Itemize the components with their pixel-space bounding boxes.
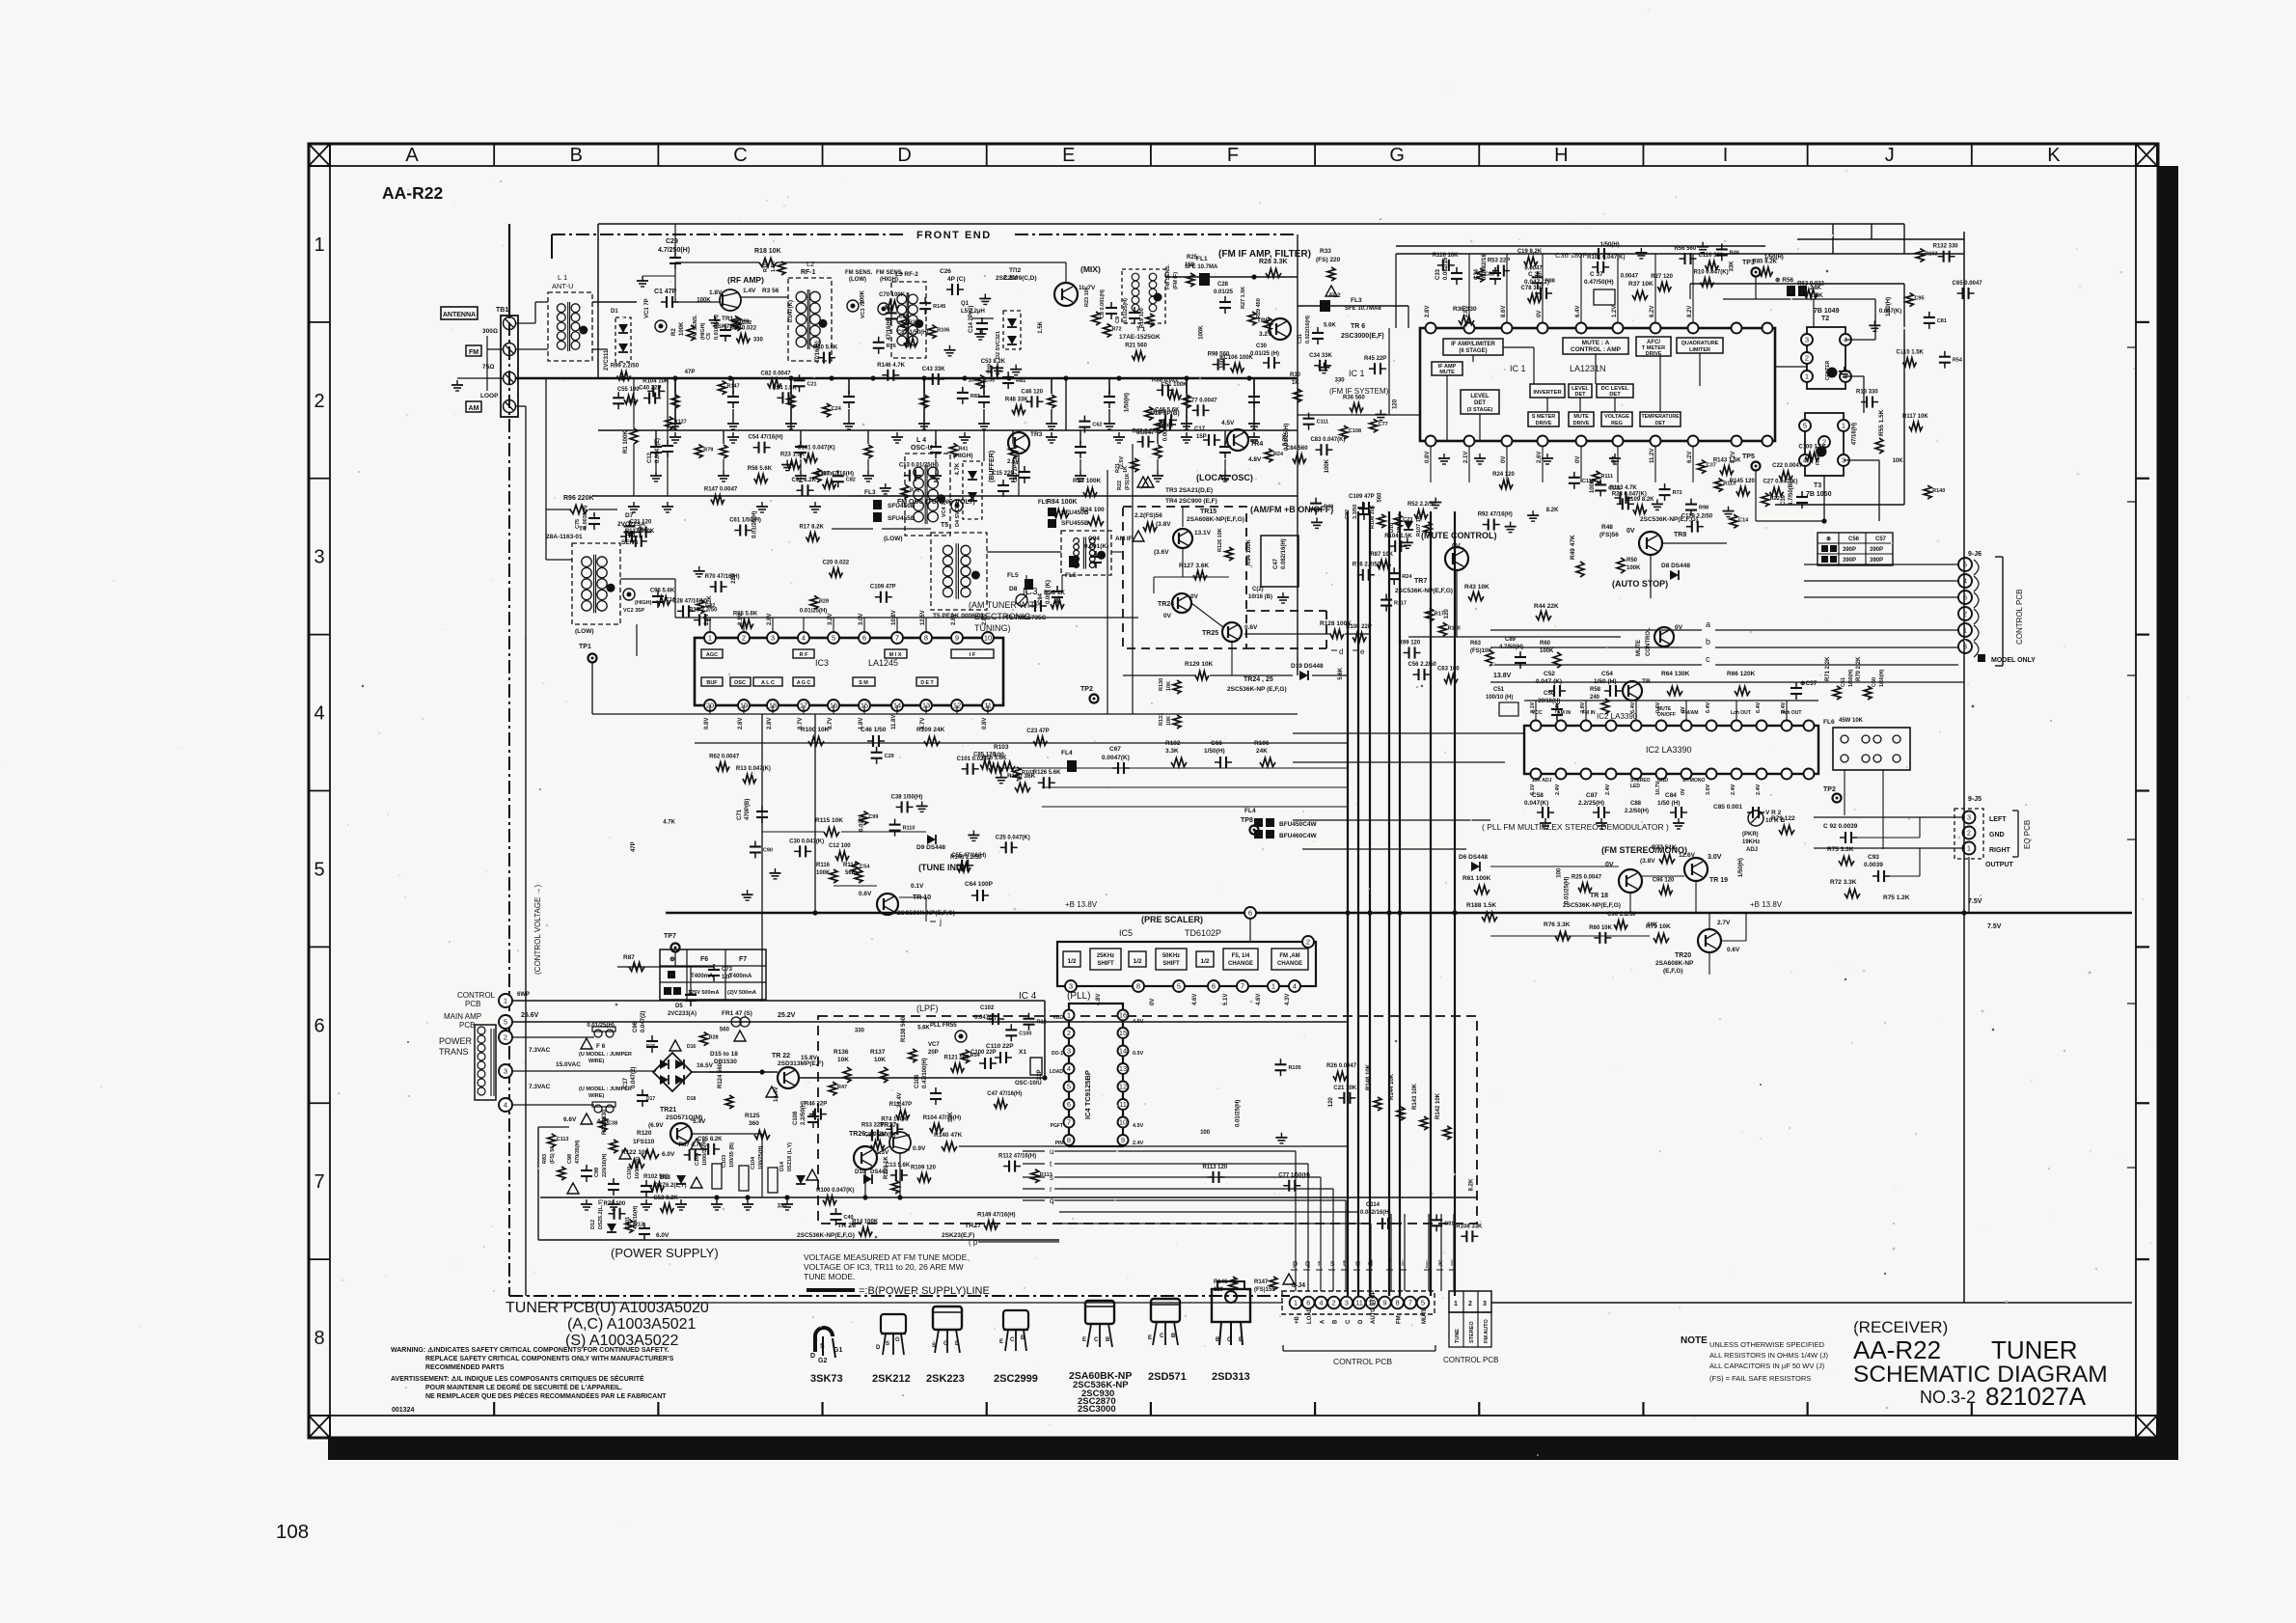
svg-text:R13 47P: R13 47P: [889, 1102, 912, 1108]
svg-text:3: 3: [1483, 1301, 1487, 1307]
svg-text:25KHz: 25KHz: [1097, 953, 1114, 959]
svg-text:C64 100P: C64 100P: [965, 881, 994, 888]
svg-text:LED: LED: [1630, 784, 1640, 789]
svg-text:C51 100K: C51 100K: [1161, 382, 1188, 388]
TR7 transistor: [1445, 547, 1468, 570]
IC4 outline: [1069, 1004, 1123, 1146]
svg-text:BFU460C4W: BFU460C4W: [1279, 833, 1318, 839]
svg-text:FL4: FL4: [1061, 750, 1073, 756]
svg-text:d: d: [1368, 1258, 1373, 1268]
svg-text:100: 100: [1200, 1130, 1211, 1136]
svg-text:C8 0.001(H): C8 0.001(H): [1100, 289, 1106, 318]
IC3 LA1245 outline: [695, 638, 1003, 705]
svg-text:0.047 (K): 0.047 (K): [1536, 678, 1562, 685]
svg-text:25.6V: 25.6V: [521, 1012, 539, 1019]
svg-text:R92 47/16(H): R92 47/16(H): [1478, 512, 1513, 518]
svg-text:B: B: [570, 145, 583, 166]
svg-text:C29: C29: [666, 238, 678, 245]
svg-text:C99: C99: [868, 814, 878, 820]
svg-text:NE REMPLACER QUE DES PIÈCES RE: NE REMPLACER QUE DES PIÈCES RECOMMANDÉES…: [425, 1391, 667, 1400]
svg-text:24K: 24K: [1256, 748, 1268, 755]
svg-text:6.0V: 6.0V: [662, 1151, 675, 1158]
svg-text:F 6: F 6: [596, 1043, 606, 1050]
svg-text:TR20: TR20: [1675, 952, 1691, 959]
svg-text:50KHz: 50KHz: [1162, 953, 1180, 959]
svg-text:2: 2: [1306, 938, 1310, 947]
svg-text:47/16(H): 47/16(H): [1851, 423, 1857, 445]
svg-text:7.3VAC: 7.3VAC: [529, 1047, 551, 1054]
svg-text:45W 10K: 45W 10K: [1839, 718, 1864, 724]
svg-text:C96 5.6K: C96 5.6K: [650, 589, 675, 594]
filter FL2: [1320, 300, 1330, 312]
svg-text:2: 2: [1967, 829, 1971, 838]
svg-text:C108: C108: [1349, 428, 1361, 434]
svg-text:SFU455B: SFU455B: [1061, 520, 1089, 527]
power left box: [537, 1127, 539, 1240]
svg-text:AM IF: AM IF: [1115, 536, 1133, 542]
svg-text:0.047(2): 0.047(2): [631, 1067, 637, 1088]
svg-text:2.4V: 2.4V: [1555, 784, 1561, 795]
svg-text:2: 2: [314, 391, 324, 412]
svg-text:a: a: [1706, 619, 1710, 629]
svg-text:R27 120: R27 120: [1651, 274, 1673, 280]
svg-text:2.4V: 2.4V: [1133, 1141, 1144, 1146]
wire T4 col: [545, 378, 547, 509]
svg-text:ELECTRONIC: ELECTRONIC: [974, 612, 1031, 621]
svg-text:C31: C31: [1298, 334, 1303, 344]
svg-text:(FM IF): (FM IF): [1173, 272, 1179, 289]
scan speckle noise: [1846, 967, 1848, 969]
wire row y=836: [1042, 806, 1348, 808]
svg-text:0.9V: 0.9V: [913, 1145, 926, 1152]
svg-text:TUNE: TUNE: [1455, 1329, 1461, 1343]
svg-text:8: 8: [1396, 1299, 1400, 1307]
D6 DS448: [1471, 862, 1480, 871]
svg-text:LOAD: LOAD: [1307, 1307, 1313, 1324]
svg-text:R72: R72: [1111, 326, 1121, 332]
svg-text:R138 560: R138 560: [901, 1016, 907, 1042]
svg-text:C93: C93: [1868, 854, 1879, 861]
svg-text:R103: R103: [994, 744, 1009, 751]
svg-text:(CONTROL VOLTAGE →): (CONTROL VOLTAGE →): [533, 884, 542, 975]
svg-text:R70 2.2K: R70 2.2K: [1856, 656, 1862, 681]
schematic top boundary: [598, 223, 1904, 225]
svg-text:C: C: [1160, 1334, 1164, 1339]
svg-text:FL3: FL3: [864, 489, 876, 496]
svg-text:C25 0.047(K): C25 0.047(K): [996, 835, 1030, 840]
svg-text:( PLL FM MULTIPLEX STERE: ( PLL FM MULTIPLEX STEREO DEMODULATOR ): [1482, 822, 1669, 832]
svg-text:C50: C50: [1544, 691, 1555, 697]
svg-text:(6.9V: (6.9V: [648, 1122, 664, 1129]
svg-text:0V: 0V: [1681, 706, 1686, 713]
filter FL5 square: [1069, 556, 1079, 567]
svg-text:G: G: [895, 1337, 900, 1343]
IC1 box TEMPERATURE DET: [1640, 412, 1681, 426]
svg-text:120: 120: [1328, 1097, 1334, 1108]
svg-text:R86 5.6K: R86 5.6K: [733, 612, 758, 618]
svg-text:L2: L2: [806, 260, 814, 268]
svg-text:C29: C29: [885, 754, 894, 759]
terminal strip TB1: [501, 316, 518, 417]
svg-text:(FS) = FAIL SAFE RESISTORS: (FS) = FAIL SAFE RESISTORS: [1709, 1374, 1811, 1383]
svg-text:(PLL): (PLL): [1067, 991, 1090, 1002]
svg-text:L 1: L 1: [558, 273, 567, 282]
svg-text:FM SENS.: FM SENS.: [693, 315, 698, 340]
svg-text:33K: 33K: [1729, 261, 1735, 272]
wire IC5 to bus: [1249, 919, 1251, 942]
svg-text:7B 1050: 7B 1050: [1806, 491, 1832, 498]
svg-text:0.01/25 (H): 0.01/25 (H): [1250, 351, 1279, 357]
svg-text:C111: C111: [1317, 420, 1329, 426]
svg-text:R37: R37: [909, 320, 918, 326]
svg-text:4: 4: [802, 634, 806, 643]
svg-text:2.4V: 2.4V: [1605, 784, 1611, 795]
svg-text:125V 500mA: 125V 500mA: [688, 990, 719, 996]
svg-text:0.01/25(H): 0.01/25(H): [587, 1023, 614, 1029]
svg-text:1: 1: [1067, 1011, 1071, 1020]
svg-text:C51: C51: [1493, 687, 1505, 693]
svg-text:C73: C73: [722, 967, 733, 973]
svg-text:R143 1.5K: R143 1.5K: [1713, 457, 1741, 463]
svg-text:(LOW): (LOW): [884, 536, 903, 542]
svg-text:0.0039: 0.0039: [1864, 862, 1883, 868]
svg-text:C110 22P: C110 22P: [986, 1043, 1014, 1050]
svg-text:ADJ: ADJ: [1746, 847, 1758, 853]
svg-text:R147: R147: [727, 384, 740, 390]
svg-text:C100 1.5K: C100 1.5K: [1798, 444, 1826, 450]
IC5 box F5 CHANGE: [1223, 949, 1258, 970]
svg-text:C104: C104: [751, 1156, 756, 1169]
svg-text:R143 10K: R143 10K: [1412, 1083, 1418, 1110]
svg-text:C17: C17: [623, 1077, 629, 1088]
T4 trimmer: [623, 589, 635, 600]
svg-text:C21 120: C21 120: [630, 519, 652, 525]
svg-text:3.6V: 3.6V: [1706, 784, 1711, 795]
svg-text:D: D: [876, 1345, 881, 1351]
svg-text:15.0VAC: 15.0VAC: [556, 1061, 581, 1068]
svg-text:6: 6: [862, 634, 866, 643]
svg-text:0.001(K): 0.001(K): [1084, 543, 1108, 550]
svg-text:3: 3: [1069, 982, 1073, 991]
transformer T6 AM IF: [1061, 531, 1111, 575]
svg-text:D: D: [897, 145, 911, 166]
AM/FM +B ON/OFF dashed box: [1123, 507, 1246, 648]
svg-text:OSC-U: OSC-U: [911, 445, 933, 452]
svg-text:C83: C83: [1485, 271, 1494, 277]
svg-text:R60 10K: R60 10K: [1589, 925, 1612, 931]
svg-text:R72: R72: [1673, 490, 1682, 496]
svg-text:RF-1: RF-1: [801, 269, 816, 276]
svg-text:GND: GND: [1989, 832, 2005, 839]
svg-text:R26 0.0047: R26 0.0047: [1326, 1063, 1357, 1069]
svg-text:TR 22: TR 22: [772, 1053, 790, 1059]
svg-text:R87 10K: R87 10K: [1370, 552, 1393, 558]
discriminator T3 7B 1050: [1805, 413, 1844, 476]
svg-text:R63 0.022: R63 0.022: [1797, 281, 1824, 287]
antenna label box: [441, 307, 478, 319]
svg-text:0.01/25(H): 0.01/25(H): [1565, 877, 1571, 904]
svg-text:1/50(H): 1/50(H): [1738, 858, 1744, 877]
transformer L2 RF-1: [788, 278, 832, 361]
diode D1 2VC311 box: [615, 317, 631, 362]
border header line: [309, 165, 2158, 167]
svg-text:(FS)10K: (FS)10K: [1470, 648, 1492, 654]
svg-text:(LOCAL OSC): (LOCAL OSC): [1196, 473, 1253, 482]
svg-text:0.0047(Z): 0.0047(Z): [655, 438, 661, 463]
connector pins left: [499, 994, 512, 1007]
svg-text:R33: R33: [1320, 248, 1331, 255]
svg-text:AM: AM: [469, 405, 479, 412]
svg-text:7.5V: 7.5V: [1987, 923, 2002, 930]
svg-text:C87 1/50(H): C87 1/50(H): [897, 330, 929, 336]
svg-text:1/50(H): 1/50(H): [1764, 255, 1784, 261]
svg-text:V R 2: V R 2: [1765, 810, 1782, 816]
svg-text:3: 3: [1967, 813, 1971, 822]
svg-text:C: C: [1346, 1319, 1352, 1324]
svg-text:DET: DET: [1474, 400, 1486, 406]
svg-text:T400mA: T400mA: [691, 974, 714, 979]
svg-text:C77 0.0047: C77 0.0047: [1188, 398, 1218, 403]
svg-text:R98 560: R98 560: [1208, 352, 1230, 358]
svg-text:2.2/50(H): 2.2/50(H): [1625, 809, 1649, 814]
svg-text:7.5V: 7.5V: [1968, 898, 1982, 905]
svg-text:R50: R50: [1626, 558, 1638, 564]
IC1 box LEVEL DET: [1569, 384, 1592, 398]
svg-text:9: 9: [1382, 1299, 1386, 1307]
svg-text:R75 3.3K: R75 3.3K: [1827, 846, 1854, 853]
svg-text:R142 10K: R142 10K: [1435, 1092, 1441, 1119]
IC1 box MUTE DRIVE: [1569, 412, 1594, 426]
svg-text:8.2V: 8.2V: [1687, 306, 1693, 317]
transistor package 2SD571: [1151, 1299, 1180, 1322]
svg-text:2: 2: [1468, 1301, 1472, 1307]
svg-text:C52: C52: [1544, 671, 1555, 677]
svg-text:8.2K: 8.2K: [1469, 1178, 1475, 1191]
svg-text:390P: 390P: [1843, 547, 1856, 553]
grounds ic2 below: [1544, 818, 1546, 823]
svg-text:47P: 47P: [631, 841, 637, 852]
front end corner bracket: [551, 234, 553, 259]
svg-text:C30: C30: [1256, 344, 1268, 349]
fuse F6: [594, 1030, 602, 1037]
svg-text:R14 100K: R14 100K: [852, 1219, 879, 1224]
border frame outer: [309, 144, 2158, 1438]
svg-text:6: 6: [314, 1015, 324, 1036]
svg-text:S: S: [886, 1341, 889, 1347]
svg-text:6: 6: [1248, 909, 1252, 918]
svg-text:FL3: FL3: [1351, 297, 1362, 304]
svg-text:3: 3: [771, 634, 775, 643]
svg-text:(3.8V: (3.8V: [1640, 858, 1655, 865]
svg-text:NOTE: NOTE: [1681, 1335, 1708, 1346]
svg-text:R23 1.5K: R23 1.5K: [780, 453, 806, 458]
svg-text:6.2V: 6.2V: [1687, 452, 1693, 463]
svg-text:1/2: 1/2: [1133, 958, 1141, 965]
svg-text:D: D: [810, 1353, 815, 1360]
svg-text:R56 5.6K: R56 5.6K: [748, 466, 773, 472]
svg-text:SFE 10.7MA8: SFE 10.7MA8: [1345, 306, 1381, 312]
FM label box: [466, 345, 481, 356]
svg-text:C40: C40: [844, 1215, 854, 1221]
wires above IC2: [1524, 700, 1818, 701]
svg-text:DRIVE: DRIVE: [1573, 421, 1590, 426]
svg-text:r: r: [1318, 1258, 1321, 1268]
svg-text:R126 10K: R126 10K: [1217, 528, 1223, 552]
svg-text:R104 10K: R104 10K: [642, 378, 670, 384]
main bus dots: [620, 375, 625, 380]
svg-text:ST/MONO: ST/MONO: [1682, 778, 1705, 784]
svg-text:R13 0.047(K): R13 0.047(K): [736, 766, 771, 772]
connector upper stubs: [1390, 1214, 1392, 1270]
hanging parts under main bus: [674, 378, 676, 394]
svg-text:R146 4.7K: R146 4.7K: [877, 363, 905, 369]
svg-text:(MUTE CONTROL): (MUTE CONTROL): [1421, 531, 1497, 540]
svg-text:TUNE MODE.: TUNE MODE.: [804, 1272, 855, 1281]
R50 100K: [1617, 558, 1625, 573]
transistor package 3SK73: [815, 1328, 833, 1352]
svg-text:POWER: POWER: [439, 1036, 473, 1046]
third wire y=514: [592, 495, 1298, 497]
IC2 top pins: [1531, 721, 1542, 731]
svg-text:4: 4: [1293, 982, 1297, 991]
svg-text:D: D: [955, 1341, 960, 1347]
svg-text:C102: C102: [980, 1005, 995, 1011]
svg-text:C66: C66: [1211, 740, 1222, 747]
routing band right top: [1797, 238, 1964, 240]
TP7 test point: [671, 944, 680, 952]
svg-text:MODEL ONLY: MODEL ONLY: [1991, 657, 2036, 664]
IC3 box ALC: [753, 677, 782, 686]
svg-text:6: 6: [1212, 982, 1216, 991]
IC3 box DET: [916, 677, 938, 686]
svg-text:C: C: [1010, 1337, 1015, 1343]
svg-text:C12: C12: [647, 452, 653, 463]
svg-text:R24: R24: [1402, 574, 1412, 580]
svg-text:IF AMP/LIMITER: IF AMP/LIMITER: [1451, 342, 1495, 347]
svg-text:K: K: [2047, 145, 2061, 166]
svg-text:T4: T4: [579, 526, 587, 533]
svg-text:100K: 100K: [861, 289, 866, 304]
svg-text:LEVEL: LEVEL: [1470, 394, 1490, 399]
svg-text:(AM TUNER WITH: (AM TUNER WITH: [969, 600, 1041, 610]
connector row wire right: [1491, 1302, 2132, 1304]
SFU filter pair: [1048, 508, 1056, 516]
svg-text:0V: 0V: [1605, 862, 1614, 868]
svg-text:D10: D10: [855, 1169, 866, 1175]
svg-text:C38: C38: [608, 1120, 617, 1126]
svg-text:A L C: A L C: [761, 680, 775, 686]
svg-text:(FS) 220: (FS) 220: [1316, 257, 1341, 263]
svg-text:R84 1.5K: R84 1.5K: [772, 385, 797, 391]
svg-text:4.8V: 4.8V: [1248, 456, 1262, 463]
svg-text:LIMITER: LIMITER: [1689, 347, 1710, 353]
svg-text:C78 330: C78 330: [1521, 286, 1544, 291]
svg-text:2SK223: 2SK223: [926, 1373, 965, 1385]
svg-text:PCB: PCB: [459, 1021, 475, 1030]
transistor package 2SD313: [1212, 1289, 1250, 1322]
svg-text:22P: 22P: [731, 573, 737, 584]
svg-text:R144 10K: R144 10K: [1389, 1073, 1395, 1100]
svg-text:C95 0.022: C95 0.022: [729, 325, 756, 331]
svg-text:C 92 0.0039: C 92 0.0039: [1823, 823, 1858, 830]
svg-text:0.6V: 0.6V: [1244, 624, 1258, 631]
svg-text:1.5K: 1.5K: [1038, 320, 1044, 333]
svg-text:PLL FR55: PLL FR55: [930, 1023, 957, 1029]
svg-text:u: u: [1355, 1258, 1360, 1268]
svg-text:C33: C33: [1435, 268, 1441, 280]
svg-text:1.4V: 1.4V: [743, 288, 756, 294]
svg-text:VOLTAGE OF IC3, TR11 to 20,: VOLTAGE OF IC3, TR11 to 20, 26 ARE MW: [804, 1262, 964, 1272]
svg-text:q: q: [1050, 1197, 1053, 1205]
TR15 transistor: [1173, 529, 1192, 548]
C56 C57 table: [1818, 533, 1893, 565]
svg-text:7.3VAC: 7.3VAC: [529, 1084, 551, 1090]
svg-text:R131: R131: [1159, 713, 1164, 726]
svg-text:6: 6: [1306, 1299, 1310, 1307]
grid row ticks right: [2136, 321, 2149, 323]
registration X box bottom-left: [309, 1416, 330, 1438]
svg-text:4.7/50(H): 4.7/50(H): [1499, 645, 1523, 650]
svg-text:R127 3.6K: R127 3.6K: [1179, 563, 1209, 569]
svg-text:0.01/25(H): 0.01/25(H): [1236, 1100, 1242, 1127]
svg-text:TP1: TP1: [579, 644, 591, 650]
svg-text:G: G: [1389, 145, 1405, 166]
svg-text:5: 5: [1803, 422, 1807, 430]
svg-text:ANT-U: ANT-U: [552, 282, 574, 290]
svg-text:2: 2: [1332, 1299, 1336, 1307]
svg-text:2.4V: 2.4V: [1731, 784, 1736, 795]
bridge out wire: [692, 1071, 762, 1073]
svg-text:e: e: [1360, 647, 1365, 656]
transformer T1 dashed: [1122, 269, 1165, 323]
wires above IC1 top: [1396, 253, 1964, 255]
svg-text:R108 33K: R108 33K: [1456, 1224, 1483, 1229]
svg-text:C17: C17: [1194, 426, 1206, 432]
svg-text:D1: D1: [611, 309, 618, 315]
svg-text:0.047(Z): 0.047(Z): [974, 1015, 997, 1021]
svg-text:14.4V: 14.4V: [774, 1087, 779, 1102]
right section box outline: [1690, 283, 1904, 285]
svg-text:R25 0.0047: R25 0.0047: [1572, 875, 1602, 881]
svg-text:1: 1: [1842, 422, 1845, 430]
svg-text:SFU450B: SFU450B: [888, 503, 916, 509]
mid verticals: [1107, 470, 1108, 714]
svg-text:TP5: TP5: [1742, 454, 1755, 460]
svg-text:TR8: TR8: [1674, 532, 1686, 538]
svg-text:C58: C58: [1532, 792, 1544, 799]
svg-text:C100: C100: [627, 1167, 633, 1179]
svg-text:C67: C67: [1109, 746, 1121, 753]
IC1 box LEVEL DET 3STAGE: [1461, 390, 1499, 414]
svg-text:LOAD: LOAD: [1050, 1069, 1064, 1075]
D20 DS448: [863, 1174, 872, 1184]
svg-text:4P (C): 4P (C): [947, 276, 966, 283]
svg-text:4.3V: 4.3V: [1285, 994, 1291, 1005]
svg-text:C89: C89: [1505, 637, 1517, 643]
svg-text:R124 560: R124 560: [718, 1062, 724, 1088]
svg-text:E: E: [999, 1339, 1003, 1345]
svg-text:R103: R103: [1022, 770, 1034, 776]
svg-text:2.8V: 2.8V: [951, 614, 957, 625]
svg-text:CONTROL: CONTROL: [1646, 627, 1652, 656]
svg-text:C88: C88: [1630, 801, 1642, 807]
svg-text:8: 8: [314, 1328, 324, 1349]
svg-text:001324: 001324: [392, 1407, 414, 1414]
svg-text:C77: C77: [1379, 422, 1388, 427]
svg-text:4.7K: 4.7K: [663, 819, 675, 825]
svg-text:R56 560: R56 560: [1674, 246, 1696, 252]
FL4 boxes legend: [1254, 818, 1263, 827]
